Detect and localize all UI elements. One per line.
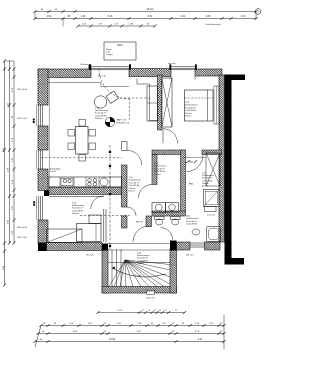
svg-text:17 Stg: 17 Stg bbox=[135, 274, 141, 277]
svg-text:Estrich: Estrich bbox=[202, 185, 208, 188]
svg-text:BODEN 2.76: BODEN 2.76 bbox=[117, 123, 130, 125]
svg-text:2.01: 2.01 bbox=[181, 16, 186, 18]
svg-text:DN 1.16: DN 1.16 bbox=[86, 255, 94, 257]
svg-text:55: 55 bbox=[175, 310, 177, 312]
svg-text:Parkett: Parkett bbox=[137, 262, 144, 265]
svg-text:F=12.46 m²: F=12.46 m² bbox=[202, 177, 213, 180]
svg-text:OKF ±0.00: OKF ±0.00 bbox=[17, 227, 28, 229]
svg-text:10.93: 10.93 bbox=[109, 338, 116, 341]
svg-text:Fenster: Fenster bbox=[168, 62, 176, 65]
svg-text:Parkett: Parkett bbox=[185, 112, 192, 115]
svg-text:2.13: 2.13 bbox=[241, 16, 246, 18]
svg-text:WM TR: WM TR bbox=[136, 222, 143, 224]
svg-text:U=14.38 lfm: U=14.38 lfm bbox=[129, 185, 141, 187]
svg-text:Treppe: Treppe bbox=[106, 53, 114, 56]
svg-text:Schlafzimmer: Schlafzimmer bbox=[72, 204, 85, 207]
svg-text:2.02: 2.02 bbox=[47, 16, 52, 18]
svg-text:Parkett: Parkett bbox=[72, 212, 79, 215]
svg-text:Schlafzimmer: Schlafzimmer bbox=[185, 104, 198, 107]
svg-text:3.51: 3.51 bbox=[148, 16, 153, 18]
svg-text:BRH 7.06: BRH 7.06 bbox=[117, 120, 127, 122]
svg-text:45: 45 bbox=[159, 310, 161, 312]
svg-text:DN 1.15: DN 1.15 bbox=[186, 255, 194, 257]
svg-text:Dachüberstand: Dachüberstand bbox=[206, 23, 222, 26]
svg-text:3.18: 3.18 bbox=[108, 16, 113, 18]
svg-text:Estrich: Estrich bbox=[129, 190, 136, 193]
svg-text:RD 1.10: RD 1.10 bbox=[98, 76, 107, 78]
svg-text:Putzlinie: Putzlinie bbox=[80, 63, 89, 66]
svg-text:OKF -0.04: OKF -0.04 bbox=[17, 237, 27, 239]
svg-text:Schlafzimmer: Schlafzimmer bbox=[154, 165, 167, 168]
svg-text:U=14.38 lfm: U=14.38 lfm bbox=[154, 171, 166, 173]
svg-text:Estrich: Estrich bbox=[185, 115, 192, 118]
svg-text:Parkett: Parkett bbox=[95, 117, 102, 120]
svg-text:Schlafzimmer: Schlafzimmer bbox=[129, 179, 142, 182]
svg-text:U=14.38 lfm: U=14.38 lfm bbox=[185, 110, 197, 112]
svg-text:Dach: Dach bbox=[117, 45, 123, 47]
svg-text:Schlafzimmer: Schlafzimmer bbox=[95, 109, 109, 112]
svg-text:Parkett: Parkett bbox=[129, 187, 136, 190]
svg-text:DN 1.15: DN 1.15 bbox=[146, 298, 155, 300]
svg-text:4.11: 4.11 bbox=[198, 339, 203, 341]
svg-text:2.26: 2.26 bbox=[206, 16, 211, 18]
svg-text:F=12.46 m²: F=12.46 m² bbox=[137, 257, 148, 260]
svg-text:OKF ±0.00: OKF ±0.00 bbox=[17, 89, 28, 91]
svg-text:21: 21 bbox=[141, 310, 143, 312]
svg-text:21: 21 bbox=[164, 310, 166, 312]
svg-text:1.16 1.01: 1.16 1.01 bbox=[207, 215, 216, 217]
svg-text:Schlafzimmer: Schlafzimmer bbox=[137, 254, 150, 257]
svg-text:Schlafzimmer: Schlafzimmer bbox=[186, 217, 199, 220]
svg-text:F=12.46 m²: F=12.46 m² bbox=[72, 207, 83, 210]
svg-text:F=12.46 m²: F=12.46 m² bbox=[185, 106, 196, 109]
svg-text:Parkett: Parkett bbox=[154, 173, 161, 176]
svg-text:F=12.46 m²: F=12.46 m² bbox=[95, 112, 107, 115]
svg-text:U=14.38 lfm: U=14.38 lfm bbox=[186, 224, 198, 226]
svg-text:F=12.46 m²: F=12.46 m² bbox=[129, 181, 140, 184]
svg-text:F=12.46 m²: F=12.46 m² bbox=[186, 220, 197, 223]
svg-text:45: 45 bbox=[148, 310, 150, 312]
svg-text:Parkett: Parkett bbox=[202, 182, 209, 185]
svg-text:21: 21 bbox=[153, 310, 155, 312]
svg-text:F=12.46 m²: F=12.46 m² bbox=[154, 167, 165, 170]
svg-text:h=0.92: h=0.92 bbox=[50, 171, 56, 173]
svg-text:OKF -0.04: OKF -0.04 bbox=[17, 118, 27, 120]
svg-text:1.26: 1.26 bbox=[81, 16, 86, 18]
svg-text:10.115: 10.115 bbox=[146, 7, 153, 11]
